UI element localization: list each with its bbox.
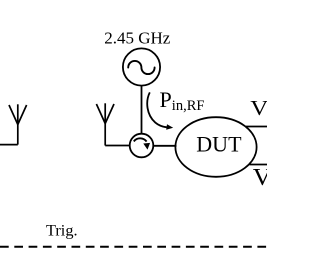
svg-text:V: V [253, 163, 267, 191]
svg-text:V: V [250, 97, 267, 121]
svg-text:in,RF: in,RF [172, 98, 205, 114]
svg-text:Trig.: Trig. [46, 221, 78, 240]
svg-text:2.45 GHz: 2.45 GHz [104, 28, 171, 47]
svg-text:P: P [160, 87, 172, 112]
svg-text:DUT: DUT [196, 132, 242, 157]
